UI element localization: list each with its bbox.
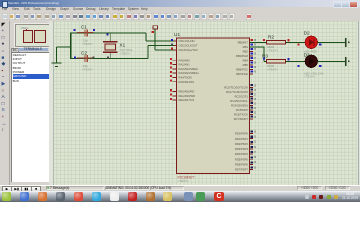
- U1 RD0-RD7 pins: [235, 131, 257, 172]
- node C2 right pin state: [93, 56, 95, 58]
- U1 RE0-RE2 pins: [170, 89, 195, 102]
- node D3 left pin state: [298, 65, 300, 67]
- wire D2 to terminal: [318, 41, 346, 43]
- wire RB0 to R2 to D2: [250, 41, 306, 43]
- node R2 wire left end state: [263, 39, 265, 41]
- U1 RA0-RA5 pins: [170, 58, 200, 84]
- wire net XTAL1 horizontal: [71, 32, 147, 34]
- node R3 right pin state: [288, 58, 290, 60]
- U1 left pins OSC1 OSC2 MCLR: [174, 39, 198, 52]
- wire OSC1 vertical: [145, 33, 147, 41]
- wire OSC2 vertical: [147, 45, 149, 58]
- wire ground branch vertical: [56, 47, 58, 63]
- LED D2 red lit: [304, 30, 318, 53]
- wire ground branch horizontal: [57, 46, 71, 48]
- node MCLR wire end state: [152, 31, 154, 33]
- ground: [52, 62, 62, 67]
- capacitor C2: [77, 51, 94, 72]
- node X1 bottom pin state: [107, 56, 109, 58]
- wire R3 to D3: [264, 60, 306, 62]
- microcontroller U1 PIC16F877 body: [174, 32, 250, 183]
- crystal X1: [103, 41, 133, 55]
- resistor R3: [262, 54, 286, 72]
- node R3 wire corner state: [263, 58, 265, 60]
- power terminal D2 cathode: [345, 38, 349, 47]
- wire RB1 dogleg to R3: [250, 47, 264, 62]
- resistor R2: [267, 35, 286, 53]
- wire crystal bottom pin: [110, 52, 112, 59]
- U1 RB0-RB7 pins: [236, 39, 257, 76]
- wire OSC1 to U1: [146, 40, 177, 42]
- wire D3 to terminal: [318, 60, 346, 62]
- node U1 MCLR pin state: [171, 48, 173, 50]
- power terminal D3 cathode: [345, 57, 349, 66]
- node R2 right pin state: [288, 39, 290, 41]
- wire MCLR vertical: [154, 29, 156, 50]
- node U1 OSC2 pin state: [171, 43, 173, 45]
- node D3 right pin state: [319, 65, 321, 67]
- wire OSC2 to U1: [148, 44, 177, 46]
- node D2 left pin state: [298, 44, 300, 46]
- wire MCLR to U1: [155, 49, 176, 51]
- node X1 top pin state: [106, 33, 108, 35]
- U1 RC0-RC7 pins: [224, 84, 257, 121]
- LED D3 yellow unlit: [304, 53, 324, 79]
- wire net XTAL2 horizontal: [71, 58, 149, 60]
- wire left bus vertical: [70, 33, 72, 60]
- node C1 left pin state: [73, 29, 75, 31]
- node D2 right pin state: [319, 44, 321, 46]
- node U1 OSC1 pin state: [171, 39, 173, 41]
- terminal MCLR default: [153, 26, 158, 29]
- node C1 right pin state: [93, 29, 95, 31]
- capacitor C1: [77, 25, 94, 46]
- node C2 left pin state: [74, 56, 76, 58]
- wire crystal top pin: [110, 33, 112, 42]
